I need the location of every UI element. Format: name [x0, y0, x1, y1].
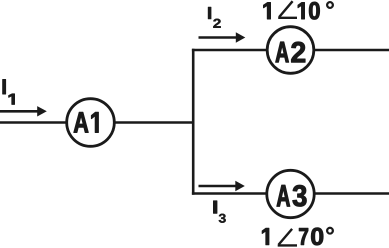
label I2: [208, 7, 221, 28]
wire: top branch to right edge: [192, 49, 389, 52]
label 1 angle 10 deg (phasor value of I2): [264, 1, 334, 19]
current arrow I1: [0, 106, 47, 116]
wire: bottom branch to right edge: [192, 192, 389, 195]
current arrow I3: [199, 181, 245, 191]
ammeter A3: [267, 170, 314, 217]
current arrow I2: [199, 32, 246, 42]
label I1: [3, 79, 15, 104]
wire: vertical junction branch: [192, 49, 195, 195]
wire: main input line from left edge to junction: [0, 121, 193, 124]
label I3: [213, 201, 225, 223]
ammeter A2: [267, 27, 314, 74]
ammeter A1: [67, 99, 115, 147]
label 1 angle 70 deg (phasor value of I3): [262, 227, 334, 246]
